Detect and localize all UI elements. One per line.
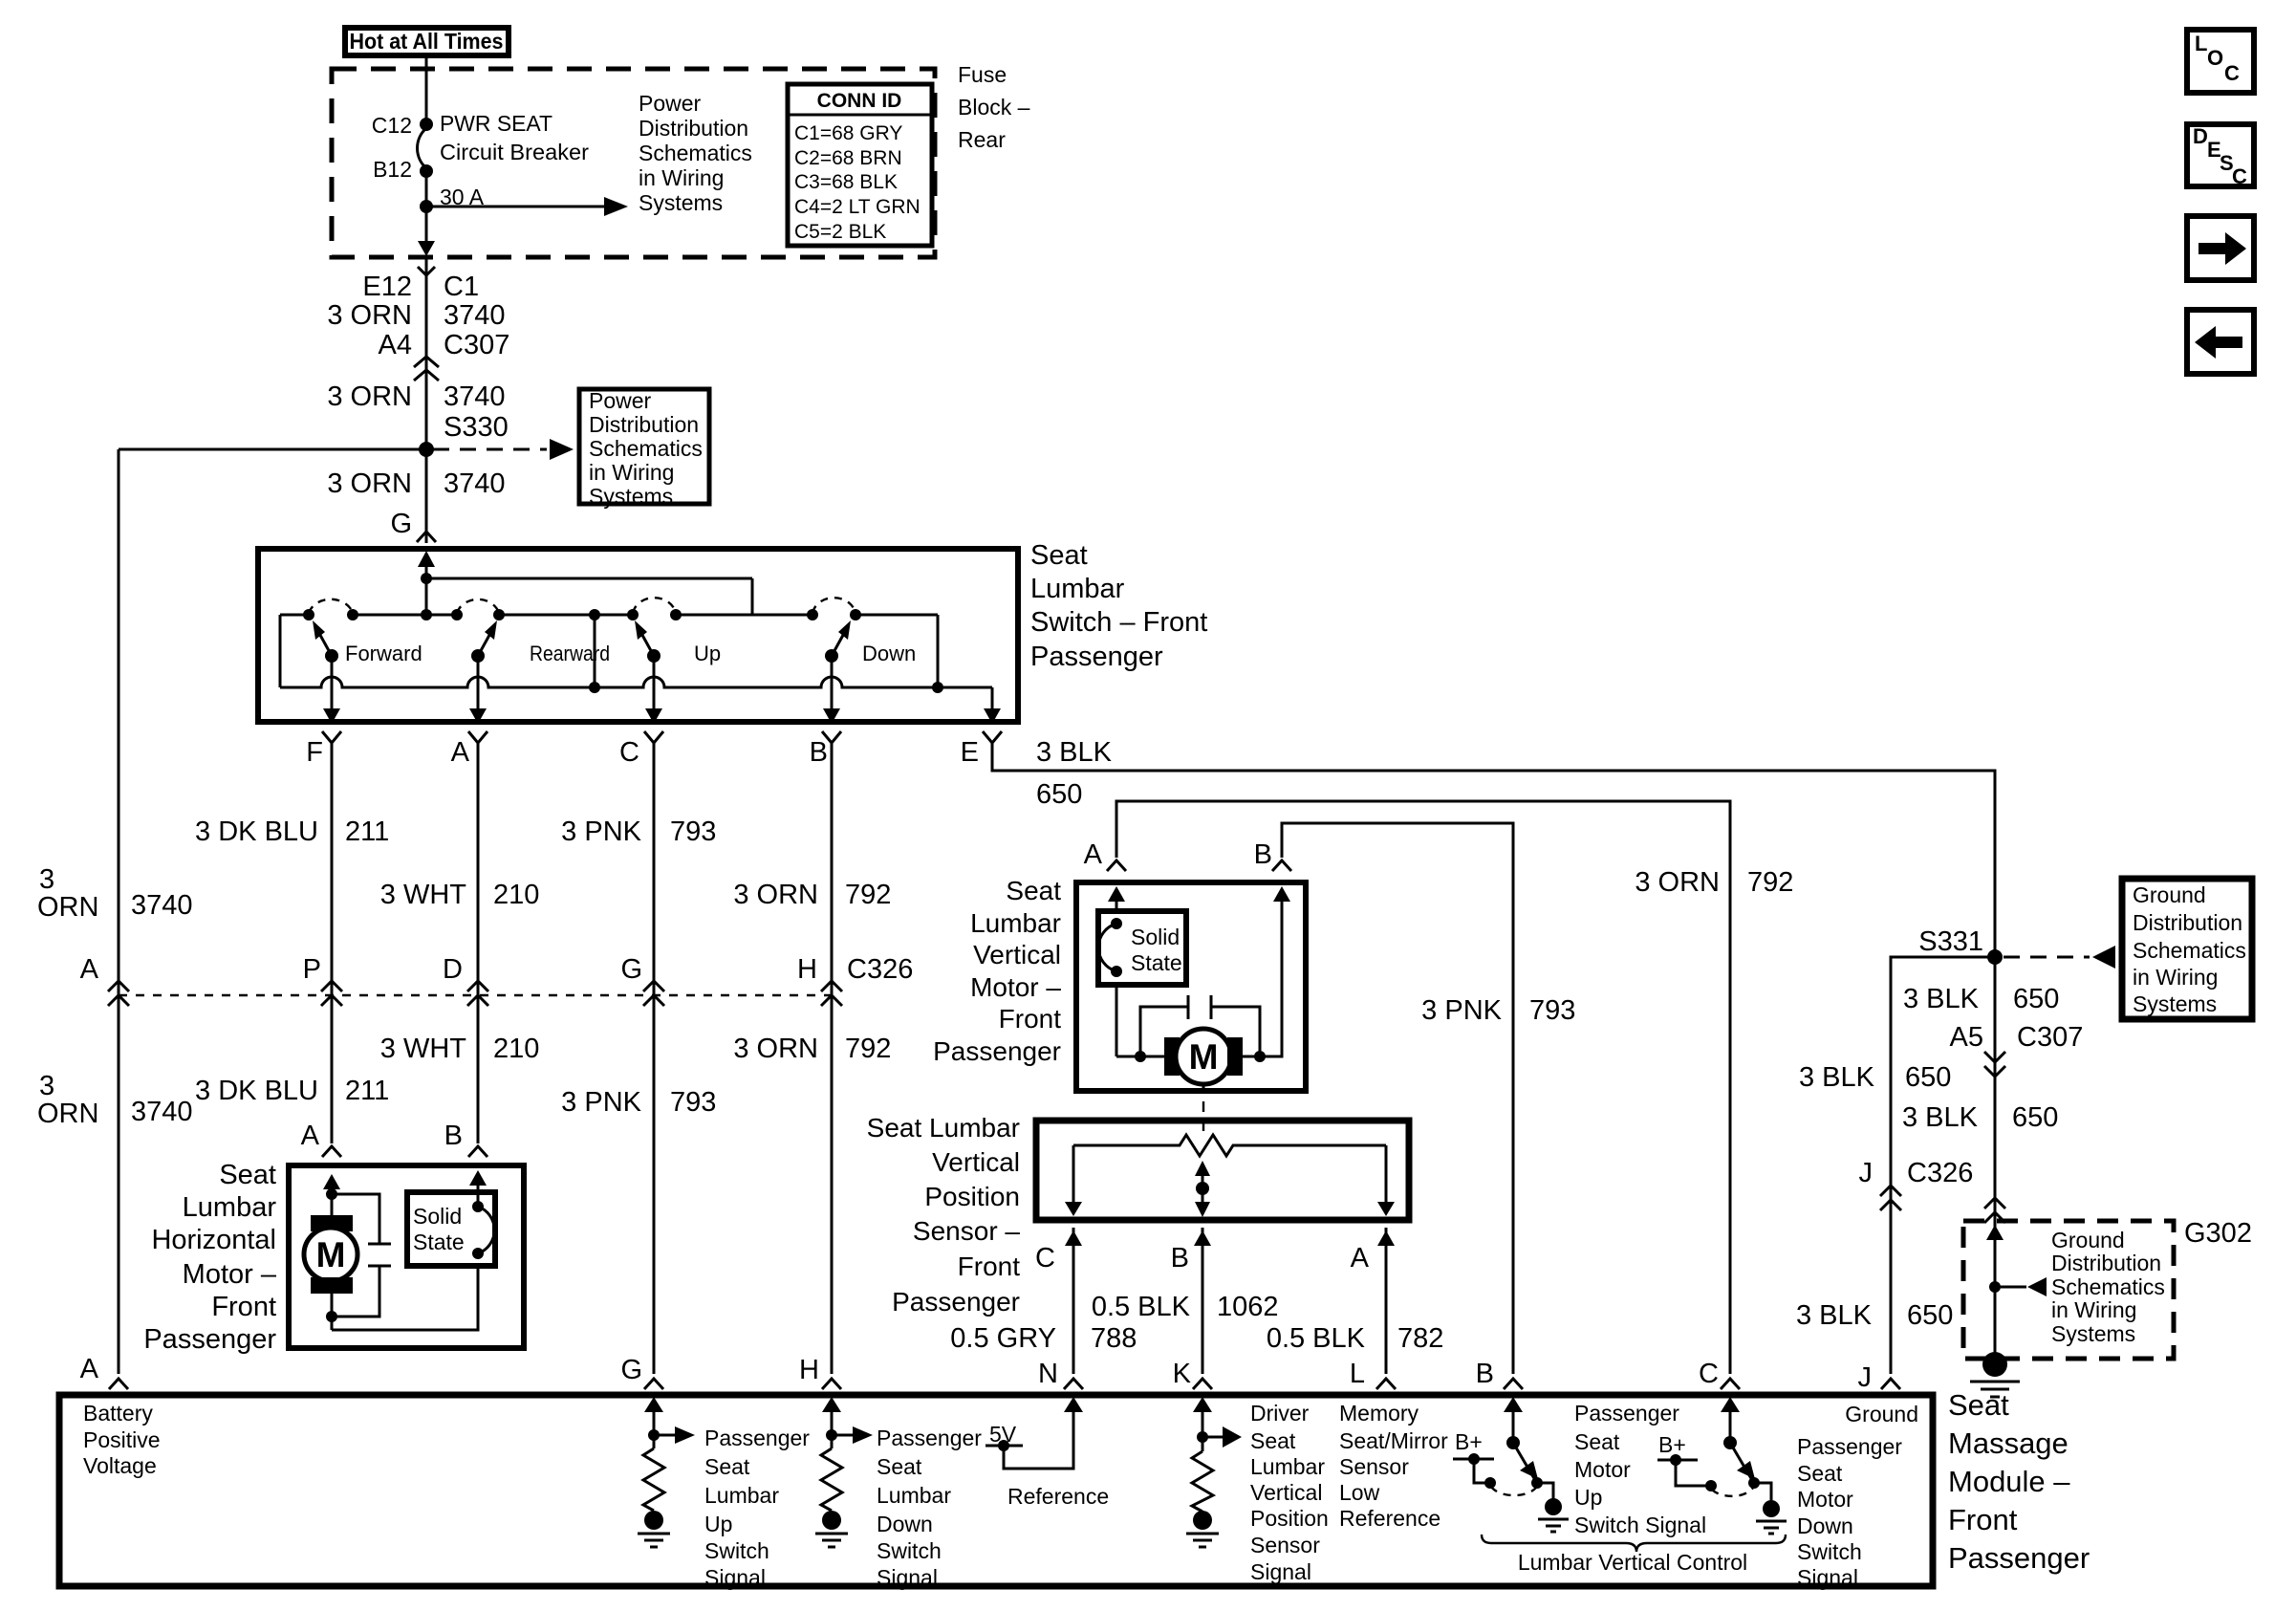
svg-text:Reference: Reference [1339,1506,1440,1531]
svg-text:A: A [80,1354,99,1384]
right arrow icon box [2187,216,2254,280]
svg-text:C: C [2224,61,2240,85]
contact row segment S5 [856,614,938,617]
svg-text:Passenger: Passenger [704,1426,810,1450]
svg-text:Passenger: Passenger [892,1287,1020,1317]
right drop to rail [937,615,940,687]
connector chevrons D [467,981,488,1006]
wire C to module G [653,743,656,1374]
svg-text:A: A [301,1121,320,1151]
G pin arrow inside [644,1397,663,1412]
circuit breaker terminal dot B12 [420,164,433,178]
svg-text:Switch – Front: Switch – Front [1030,607,1207,638]
splice S330 junction dot [419,442,434,457]
svg-text:Ground: Ground [2133,882,2206,907]
ground symbol G302 [1982,1352,2007,1377]
svg-text:Lumbar: Lumbar [1250,1454,1325,1479]
svg-text:Systems: Systems [639,190,723,215]
contact dots [303,609,314,620]
connector C307 double chevron down [1984,1052,2005,1077]
wire F to horizontal motor A [331,743,334,1143]
svg-text:3 PNK: 3 PNK [561,1087,641,1118]
svg-text:3 DK BLU: 3 DK BLU [195,816,318,847]
svg-text:Low: Low [1339,1480,1380,1505]
svg-text:N: N [1038,1359,1058,1389]
motor M top brush [311,1215,353,1231]
dashed reference wire from S330 [433,448,547,451]
arrow down at fuse block exit [418,241,435,256]
potentiometer resistor [1073,1135,1386,1156]
svg-text:Passenger: Passenger [933,1036,1061,1066]
svg-text:Position: Position [1250,1506,1329,1531]
connector F below box [322,731,341,743]
K pin resistor [1192,1451,1213,1512]
svg-text:Sensor –: Sensor – [913,1216,1020,1246]
module connector H [822,1379,841,1389]
bus junction dot [421,573,432,584]
svg-text:Sensor: Sensor [1339,1454,1409,1479]
svg-text:0.5 BLK: 0.5 BLK [1092,1292,1191,1322]
module connector J [1881,1379,1900,1389]
motor M bottom brush [311,1277,353,1294]
switch arm Rearward [478,628,493,656]
svg-text:A: A [1351,1243,1370,1274]
svg-text:3 ORN: 3 ORN [733,880,818,910]
svg-text:792: 792 [845,1034,891,1064]
switch arm Down [832,628,847,656]
svg-text:Seat: Seat [704,1454,750,1479]
wire below breaker [425,171,428,250]
svg-text:Lumbar: Lumbar [704,1483,779,1508]
svg-text:Lumbar: Lumbar [1030,574,1125,604]
switch arm Up [639,628,654,656]
A pin arrow inside [1108,886,1125,902]
connector C below box [644,731,663,743]
svg-text:3 DK BLU: 3 DK BLU [195,1076,318,1106]
svg-text:A: A [1084,839,1103,870]
svg-text:Seat: Seat [1250,1428,1296,1453]
svg-text:Motor: Motor [1797,1487,1853,1512]
svg-text:Power: Power [589,388,652,413]
SEC_HMOTOR [143,1160,524,1355]
output wire A [477,656,480,710]
svg-text:C5=2 BLK: C5=2 BLK [794,221,886,243]
svg-text:Reference: Reference [1007,1484,1109,1509]
svg-text:G302: G302 [2184,1218,2252,1249]
connector C307 double chevron [414,357,439,381]
contact row segment S3 [499,614,633,617]
svg-text:Up: Up [694,642,721,665]
svg-text:Up: Up [704,1512,732,1536]
svg-text:Seat/Mirror: Seat/Mirror [1339,1428,1448,1453]
capacitor plates [1187,995,1190,1019]
svg-text:Passenger: Passenger [877,1426,982,1450]
svg-text:Seat: Seat [1030,540,1088,571]
svg-text:E12: E12 [362,272,412,302]
SEC_MODULE [59,1354,2090,1590]
svg-text:M: M [316,1235,346,1274]
svg-text:in Wiring: in Wiring [589,460,674,485]
svg-text:A: A [80,954,99,985]
svg-text:Schematics: Schematics [639,141,752,165]
connector A below box [468,731,487,743]
circuit breaker arc [418,128,426,168]
svg-text:Passenger: Passenger [1574,1401,1679,1426]
svg-text:A: A [451,737,470,768]
CONN ID table box [788,84,932,246]
svg-text:Systems: Systems [2133,991,2217,1016]
svg-text:650: 650 [1036,779,1082,810]
solid state switch arc [478,1207,494,1253]
junction dot in G302 [1989,1281,2001,1293]
wire vertical motor B to module B [1282,823,1513,1374]
svg-text:0.5 BLK: 0.5 BLK [1267,1323,1366,1354]
svg-text:G: G [620,1355,642,1385]
contact row segment S1 [280,614,309,617]
wire below fuse block [425,257,428,543]
B pin switch arm [1513,1443,1535,1480]
G pin signal arrow [654,1434,676,1437]
svg-text:3 BLK: 3 BLK [1799,1062,1875,1093]
svg-text:3740: 3740 [131,1097,193,1127]
switch arm Forward [316,628,332,656]
B pin wire into solid state [477,1180,480,1207]
arrow up inside G302 [1986,1225,2004,1240]
module connector G [644,1379,663,1389]
svg-text:B12: B12 [373,157,412,182]
svg-text:782: 782 [1397,1323,1443,1354]
svg-text:B: B [1476,1359,1494,1389]
svg-text:C326: C326 [847,954,913,985]
svg-text:Passenger: Passenger [1948,1541,2090,1575]
svg-text:3 PNK: 3 PNK [1421,995,1502,1026]
capacitor plates [368,1243,391,1246]
K pin arrow inside [1193,1397,1212,1412]
svg-text:3 PNK: 3 PNK [561,816,641,847]
svg-text:M: M [1189,1037,1219,1077]
LOC icon box [2187,30,2254,93]
svg-text:Motor –: Motor – [970,972,1061,1002]
H pin resistor [821,1448,842,1511]
svg-text:3 BLK: 3 BLK [1902,1102,1979,1133]
wire B to module H [831,743,834,1374]
svg-text:Voltage: Voltage [83,1453,157,1478]
bus wire [426,577,752,580]
svg-text:Signal: Signal [877,1565,938,1590]
H pin signal arrow [832,1434,854,1437]
Power Distribution Schematics box [579,389,709,504]
potentiometer left end arrow [1072,1145,1075,1203]
wire solid state to motor [1116,985,1118,1056]
svg-text:K: K [1173,1359,1192,1389]
svg-text:Ground: Ground [2051,1228,2125,1252]
wire to left brush [1116,1056,1164,1058]
svg-text:Solid: Solid [413,1204,462,1229]
svg-text:Signal: Signal [1250,1559,1311,1584]
wire E ground run [992,743,1995,1354]
svg-text:Front: Front [211,1292,276,1322]
contact row segment S2 [353,614,457,617]
G pin resistor [643,1448,664,1511]
svg-text:210: 210 [493,1034,539,1064]
wire S331 left branch to module J [1891,957,1995,1374]
svg-text:Distribution: Distribution [639,116,748,141]
svg-text:3 WHT: 3 WHT [380,1034,467,1064]
B pin dashed travel arc [1491,1487,1536,1495]
svg-text:3740: 3740 [131,890,193,921]
svg-text:Horizontal: Horizontal [151,1225,276,1255]
svg-text:Schematics: Schematics [589,436,703,461]
potentiometer wiper [1195,1161,1210,1176]
svg-text:B+: B+ [1658,1432,1686,1457]
svg-text:C4=2 LT GRN: C4=2 LT GRN [794,196,921,218]
svg-text:S330: S330 [444,412,509,443]
svg-text:in Wiring: in Wiring [639,165,724,190]
svg-text:3 ORN: 3 ORN [327,381,412,412]
svg-text:3 ORN: 3 ORN [327,468,412,499]
svg-text:Motor: Motor [1574,1457,1631,1482]
B pin arrow inside [1504,1397,1523,1412]
svg-text:3 ORN: 3 ORN [733,1034,818,1064]
svg-text:D: D [443,954,463,985]
svg-text:Positive: Positive [83,1427,161,1452]
svg-text:Solid: Solid [1131,925,1180,949]
svg-text:Sensor: Sensor [1250,1533,1320,1557]
svg-text:Vertical: Vertical [932,1147,1020,1177]
svg-text:650: 650 [1905,1062,1951,1093]
svg-text:Seat: Seat [1797,1461,1843,1486]
module connector L [1376,1379,1396,1389]
svg-text:L: L [2195,32,2207,55]
svg-text:Fuse: Fuse [958,62,1007,87]
svg-text:Switch Signal: Switch Signal [1574,1513,1706,1537]
C pin switch to ground [1754,1483,1771,1500]
svg-text:C326: C326 [1907,1158,1973,1188]
capacitor left junction dot [1135,1051,1146,1062]
connector chevrons G [643,981,664,1006]
svg-text:Massage: Massage [1948,1426,2069,1460]
svg-text:Passenger: Passenger [1030,642,1163,672]
svg-text:Front: Front [999,1004,1062,1034]
K pin ground [1193,1511,1212,1530]
svg-text:Hot at All Times: Hot at All Times [350,29,504,54]
svg-text:C: C [619,737,639,768]
svg-text:ORN: ORN [37,1099,98,1129]
svg-text:P: P [303,954,321,985]
motor M circle [304,1228,357,1281]
left drop to rail [279,615,282,687]
DESC icon box [2187,124,2254,186]
arrow to ground distribution text [1995,1286,2026,1289]
svg-text:Seat: Seat [1006,876,1061,905]
connector B at vertical motor [1272,860,1291,871]
G302 dashed box [1963,1221,2174,1359]
svg-text:C1: C1 [444,272,479,302]
svg-text:Systems: Systems [589,484,673,509]
connector A at vertical motor [1107,860,1126,871]
svg-text:Lumbar: Lumbar [970,908,1061,938]
SEC_SENSOR [867,1113,1444,1374]
svg-text:793: 793 [670,816,716,847]
left arrow icon box [2187,310,2254,374]
svg-text:PWR SEAT: PWR SEAT [440,111,552,136]
svg-text:792: 792 [845,880,891,910]
svg-text:C307: C307 [444,330,509,360]
svg-text:3 BLK: 3 BLK [1036,737,1113,768]
svg-text:B: B [810,737,828,768]
junction dot motor top [326,1188,337,1200]
capacitor branch bottom [332,1266,379,1317]
svg-text:Distribution: Distribution [2051,1251,2161,1275]
seat lumbar vertical position sensor box [1036,1121,1409,1220]
svg-text:793: 793 [670,1087,716,1118]
svg-text:Ground: Ground [1845,1402,1918,1426]
connector C326 dashed line [119,994,832,996]
sensor wire A to module L [1385,1228,1388,1374]
svg-text:B+: B+ [1455,1429,1483,1454]
svg-text:Signal: Signal [704,1565,766,1590]
splice S331 junction dot [1987,949,2003,965]
connector chevrons A [108,981,129,1006]
svg-text:793: 793 [1529,995,1575,1026]
connector chevrons P [321,981,342,1006]
C pin arrow inside [1721,1397,1740,1412]
dashed travel arc Forward [309,599,353,613]
svg-text:3: 3 [39,1071,54,1101]
svg-text:J: J [1858,1362,1873,1393]
capacitor branch top [332,1194,379,1244]
svg-text:C3=68 BLK: C3=68 BLK [794,171,898,193]
svg-text:Rearward: Rearward [530,642,610,665]
output wire F [331,656,334,710]
svg-text:Vertical: Vertical [973,940,1061,969]
svg-text:B: B [444,1121,463,1151]
svg-text:F: F [306,737,323,768]
output wire B [831,656,834,710]
SEC_VMOTOR [933,801,1793,1374]
svg-text:Front: Front [958,1252,1021,1281]
svg-text:Seat: Seat [1948,1388,2009,1422]
fuse block dashed box [332,69,935,257]
svg-text:A4: A4 [379,330,412,360]
svg-text:Front: Front [1948,1503,2018,1536]
svg-text:Schematics: Schematics [2133,938,2246,963]
dashed reference wire from S331 [2004,956,2090,959]
module connector C [1721,1379,1740,1389]
svg-text:G: G [620,954,642,985]
5V supply bar [986,1445,1023,1448]
svg-text:O: O [2207,46,2223,70]
svg-text:A5: A5 [1950,1022,1983,1053]
svg-text:3 ORN: 3 ORN [327,300,412,331]
mid drop to rail [594,615,596,687]
svg-text:Passenger: Passenger [1797,1434,1902,1459]
B pin arrow inside [1273,886,1290,902]
svg-text:Schematics: Schematics [2051,1274,2165,1299]
svg-text:Up: Up [1574,1485,1602,1510]
connector A at horizontal motor [322,1146,341,1157]
svg-text:B: B [1171,1243,1189,1274]
svg-text:Memory: Memory [1339,1401,1419,1426]
svg-text:650: 650 [2013,984,2059,1014]
svg-text:Driver: Driver [1250,1401,1310,1426]
K pin signal arrow [1202,1436,1224,1439]
dashed link motor to position sensor [1202,1082,1205,1094]
svg-text:S331: S331 [1918,926,1983,957]
dashed travel arc Rearward [457,599,499,613]
C pin switch arm [1730,1443,1752,1480]
svg-text:Lumbar Vertical Control: Lumbar Vertical Control [1518,1550,1747,1575]
solid state dots [1111,918,1122,929]
svg-text:C: C [2232,164,2247,188]
H pin ground [822,1511,841,1530]
svg-text:792: 792 [1747,867,1793,898]
connector G female symbol [417,532,436,542]
svg-text:H: H [797,954,817,985]
seat massage module box [59,1395,1933,1586]
svg-text:Seat: Seat [219,1160,276,1190]
connector chevrons at G302 entry [1984,1198,2005,1223]
motor right brush [1227,1037,1243,1076]
svg-text:Switch: Switch [704,1538,769,1563]
svg-text:1062: 1062 [1217,1292,1279,1322]
output wire C [653,656,656,710]
svg-text:Position: Position [924,1182,1020,1211]
SEC_LEFTWIRES [37,449,913,1374]
junction dot to power distribution arrow [420,200,433,213]
svg-text:C: C [1035,1243,1055,1274]
connector B at horizontal motor [468,1146,487,1157]
motor M circle [1176,1029,1231,1084]
module connector B [1504,1379,1523,1389]
svg-text:Module –: Module – [1948,1465,2070,1498]
sensor wire C to module N [1072,1228,1075,1374]
svg-text:B: B [1254,839,1272,870]
svg-text:3740: 3740 [444,468,506,499]
circuit breaker CB30A terminal dot C12 [420,118,433,131]
seat lumbar switch box S4 [258,549,1018,722]
wire from Hot box into fuse block [425,55,428,121]
capacitor right junction dot [1254,1051,1266,1062]
svg-text:Battery: Battery [83,1401,153,1426]
SEC_SWITCH [258,540,1207,768]
brace Lumbar Vertical Control [1482,1535,1786,1552]
svg-text:Motor –: Motor – [183,1259,277,1290]
svg-text:Lumbar: Lumbar [183,1192,277,1223]
wire right brush to B pin [1243,896,1282,1056]
svg-text:C307: C307 [2017,1022,2083,1053]
svg-text:Vertical: Vertical [1250,1480,1322,1505]
module connector K [1193,1379,1212,1389]
svg-text:Passenger: Passenger [143,1324,276,1355]
B pin switch to ground [1537,1483,1553,1499]
module connector N [1064,1379,1083,1389]
dashed travel arc Down [812,598,856,613]
svg-text:3: 3 [39,864,54,895]
svg-text:in Wiring: in Wiring [2051,1297,2136,1322]
H pin arrow inside [822,1397,841,1412]
solid state arc [1098,924,1116,971]
svg-text:Lumbar: Lumbar [877,1483,951,1508]
svg-text:Forward: Forward [345,642,422,665]
svg-text:D: D [2193,124,2208,148]
feed arrow into switch [418,551,435,567]
potentiometer right end arrow [1385,1145,1388,1203]
svg-text:0.5 GRY: 0.5 GRY [950,1323,1056,1354]
bottom wire to B side [332,1266,478,1330]
svg-text:3740: 3740 [444,381,506,412]
seat lumbar vertical motor box [1076,882,1306,1091]
